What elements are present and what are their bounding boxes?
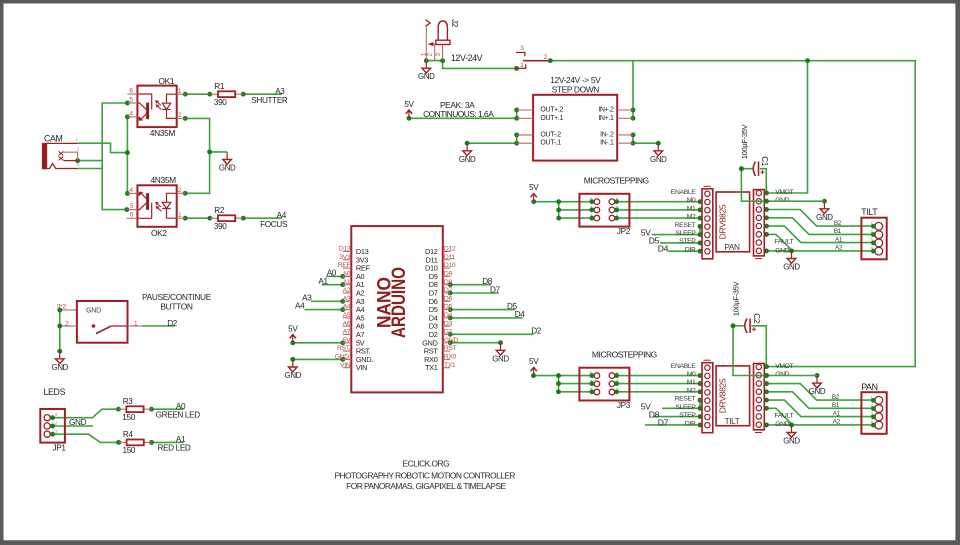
- junction nano left: [340, 282, 345, 287]
- junction JP1: [149, 407, 154, 412]
- junction driver1 left: [698, 249, 703, 254]
- svg-text:A1: A1: [343, 279, 351, 286]
- junction driver1 right: [739, 166, 744, 171]
- supply 5V output: [404, 100, 414, 119]
- svg-text:GND: GND: [492, 354, 509, 363]
- svg-text:STEP: STEP: [679, 238, 696, 245]
- junction nano right: [448, 282, 453, 287]
- junction driver2 right: [731, 323, 736, 328]
- svg-text:TILT: TILT: [861, 207, 878, 217]
- pin header control side of driver 1: [702, 186, 713, 258]
- svg-text:CONTINUOUS: 1.6A: CONTINUOUS: 1.6A: [423, 109, 494, 119]
- junction TILT pins: [871, 232, 876, 237]
- wire driver2 B2 to PAN: [767, 384, 874, 401]
- svg-text:OUT-.1: OUT-.1: [540, 140, 561, 147]
- junction nano right: [448, 332, 453, 337]
- junction driver1 right: [764, 232, 769, 237]
- svg-text:STEP: STEP: [679, 412, 696, 419]
- junction PAN pins: [871, 423, 876, 428]
- junction driver2 GND pin: [764, 373, 769, 378]
- svg-text:D10: D10: [444, 262, 456, 269]
- junction driver1 left: [698, 224, 703, 229]
- junction step-down: [631, 132, 636, 137]
- wire JP3 to M0: [617, 375, 700, 377]
- junction driver1 right: [764, 215, 769, 220]
- svg-text:2: 2: [544, 54, 548, 61]
- pushbutton S1 PAUSE/CONTINUE: [57, 301, 142, 343]
- wire JP3 to M2: [617, 391, 700, 393]
- junction button: [57, 349, 62, 354]
- junction driver2 left: [556, 373, 561, 378]
- svg-text:GND: GND: [418, 72, 435, 81]
- wire JP3 pin4: [559, 383, 592, 385]
- wire 5V to JP3: [534, 375, 559, 377]
- svg-text:FAULT: FAULT: [774, 412, 793, 419]
- ground at driver1 GND pin: [816, 201, 833, 222]
- svg-text:GND.: GND.: [335, 354, 351, 361]
- ground at step-down input: [650, 143, 667, 164]
- svg-text:ECLICK.ORG: ECLICK.ORG: [402, 459, 449, 469]
- wire IN- pins tie: [632, 135, 634, 143]
- junction driver2 left: [698, 406, 703, 411]
- junction driver1 left: [556, 207, 561, 212]
- svg-text:4N35M: 4N35M: [150, 128, 176, 138]
- svg-text:C1: C1: [760, 156, 769, 167]
- junction JP2 pins: [589, 207, 594, 212]
- junction: [207, 92, 212, 97]
- junction driver1 GND pin: [764, 199, 769, 204]
- junction nano right: [448, 340, 453, 345]
- svg-text:GND: GND: [775, 421, 789, 428]
- resistor R2: [210, 206, 243, 231]
- junction step-down: [514, 108, 519, 113]
- svg-text:R4: R4: [123, 430, 134, 439]
- svg-text:A1: A1: [835, 236, 843, 243]
- wire OK1 pin1 to R1: [185, 93, 210, 95]
- junction: [183, 216, 188, 221]
- junction JP2 pins: [589, 216, 594, 221]
- junction C2: [731, 323, 736, 328]
- wire GND branch of V3: [210, 151, 228, 153]
- junction: [207, 216, 212, 221]
- wire JP2 pin6: [559, 201, 592, 203]
- junction: [183, 191, 188, 196]
- junction step-down: [514, 116, 519, 121]
- junction: [75, 158, 80, 163]
- junction: [125, 101, 130, 106]
- junction driver1 left: [698, 207, 703, 212]
- junction driver2 left: [698, 381, 703, 386]
- wire JP3 pin2: [559, 391, 592, 393]
- module U1 ARDUINO NANO: [335, 226, 459, 392]
- ground at nano right: [492, 343, 509, 364]
- svg-text:A2: A2: [833, 419, 841, 426]
- junction driver2 right: [764, 381, 769, 386]
- svg-text:OUT-.2: OUT-.2: [540, 131, 561, 138]
- wire net A1 at nano: [322, 284, 343, 286]
- svg-text:GND: GND: [52, 363, 69, 372]
- svg-text:RX0: RX0: [444, 354, 457, 361]
- junction C1: [739, 166, 744, 171]
- svg-text:M1: M1: [687, 379, 696, 386]
- wire R3 to A0 label: [152, 408, 184, 410]
- junction TILT pins: [871, 249, 876, 254]
- junction JP2 pins: [614, 207, 619, 212]
- svg-text:D5: D5: [444, 304, 453, 311]
- capacitor C1 100uF-35V: [740, 123, 769, 176]
- svg-text:VIN: VIN: [356, 363, 367, 372]
- svg-text:GND: GND: [459, 155, 476, 164]
- junction JP3 pins: [589, 389, 594, 394]
- svg-text:R3: R3: [123, 397, 134, 406]
- wire C2 minus to GND rail: [733, 326, 817, 376]
- svg-text:5V: 5V: [288, 324, 298, 333]
- optocoupler OK1: [127, 76, 185, 138]
- svg-text:DIR: DIR: [685, 246, 696, 253]
- wire OK1 pin2 to OK2 pin2 (V3): [185, 118, 210, 193]
- wire C1 plus lead left: [741, 168, 752, 170]
- wire JP2 to M1: [617, 209, 700, 211]
- junction step-down: [407, 116, 412, 121]
- junction step-down: [631, 108, 636, 113]
- wire 12V-24V rail to driver1 VMOT: [767, 61, 808, 193]
- junction button: [57, 308, 62, 313]
- svg-text:100µF-35V: 100µF-35V: [732, 280, 741, 316]
- junction driver1 right: [764, 199, 769, 204]
- junction nano left: [340, 307, 345, 312]
- connector J2 power jack 12V-24V: [420, 19, 459, 61]
- junction driver1 right: [764, 207, 769, 212]
- svg-text:ENABLE: ENABLE: [671, 189, 697, 196]
- junction nano right: [498, 340, 503, 345]
- junction step-down: [514, 132, 519, 137]
- svg-text:SLEEP: SLEEP: [675, 404, 696, 411]
- svg-text:A4: A4: [277, 211, 287, 220]
- junction step-down: [656, 141, 661, 146]
- svg-text:IN+.2: IN+.2: [598, 107, 614, 114]
- junction JP3 pins: [614, 381, 619, 386]
- svg-text:RED LED: RED LED: [157, 444, 190, 453]
- svg-text:A5: A5: [343, 312, 351, 319]
- svg-text:GND: GND: [775, 247, 789, 254]
- wire driver2 GND bottom: [767, 424, 792, 426]
- junction power: [440, 58, 445, 63]
- wire RESET-SLEEP tie: [699, 226, 701, 234]
- wire CAM sleeve to V1: [78, 168, 103, 170]
- svg-text:A3: A3: [343, 295, 351, 302]
- capacitor C2 100uF-35V: [732, 280, 761, 333]
- svg-text:GND: GND: [783, 263, 800, 272]
- wire nano GND right: [450, 342, 500, 344]
- junction: [241, 92, 246, 97]
- wire 5V to JP2: [534, 201, 559, 203]
- svg-text:JP3: JP3: [617, 401, 631, 410]
- ground below button: [52, 351, 69, 372]
- junction PAN pins: [871, 406, 876, 411]
- wire driver1 B2 to TILT: [767, 210, 874, 227]
- svg-text:3*2: 3*2: [57, 304, 67, 311]
- junction TILT pins: [871, 224, 876, 229]
- wire JP2 to M2: [617, 217, 700, 219]
- ground at nano left: [285, 359, 302, 380]
- wire JP2 pin4: [559, 209, 592, 211]
- svg-text:JP1: JP1: [53, 444, 67, 453]
- junction step-down: [631, 141, 636, 146]
- wire D7 to DIR: [645, 424, 700, 426]
- svg-text:5V: 5V: [529, 183, 539, 192]
- svg-text:DIR: DIR: [685, 420, 696, 427]
- wire JP1 pin3 to R3: [53, 409, 119, 418]
- svg-text:JP2: JP2: [617, 227, 631, 236]
- svg-text:TX1: TX1: [425, 363, 438, 372]
- junction driver2 right: [764, 406, 769, 411]
- wire JP2 rows tie: [558, 202, 560, 218]
- wire JP2 pin2: [559, 217, 592, 219]
- svg-text:ENABLE: ENABLE: [671, 363, 697, 370]
- svg-text:GND: GND: [69, 418, 87, 427]
- junction driver2 left: [531, 373, 536, 378]
- wire 5V to nano: [293, 342, 343, 344]
- junction: [124, 207, 129, 212]
- svg-text:R1: R1: [214, 82, 225, 91]
- junction power: [548, 58, 553, 63]
- wire D5 to STEP: [660, 242, 700, 244]
- wire GND to nano: [293, 358, 343, 360]
- svg-text:C2: C2: [752, 313, 761, 324]
- svg-text:B1: B1: [834, 228, 842, 235]
- junction driver2 right: [815, 373, 820, 378]
- junction PAN pins: [871, 398, 876, 403]
- wire C1 to VMOT: [760, 169, 766, 193]
- wire net A0 at nano: [326, 275, 343, 277]
- junction driver1 left: [698, 232, 703, 237]
- svg-text:D4: D4: [444, 312, 453, 319]
- svg-text:5V: 5V: [529, 357, 539, 366]
- svg-text:RST.: RST.: [337, 345, 351, 352]
- svg-text:D7: D7: [490, 285, 501, 294]
- junction nano left: [290, 357, 295, 362]
- svg-text:M0: M0: [687, 371, 696, 378]
- junction: [207, 149, 212, 154]
- junction driver2 left: [556, 389, 561, 394]
- svg-text:3V3: 3V3: [339, 254, 351, 261]
- svg-text:150: 150: [122, 413, 135, 422]
- svg-text:M0: M0: [687, 197, 696, 204]
- svg-text:REF: REF: [338, 262, 351, 269]
- junction driver2 right: [764, 389, 769, 394]
- svg-text:OK2: OK2: [151, 228, 167, 238]
- wire C2 plus lead left: [733, 325, 744, 327]
- wire R2 to A4 label: [243, 217, 282, 219]
- svg-text:OUT+.2: OUT+.2: [540, 107, 563, 114]
- junction JP3 pins: [614, 389, 619, 394]
- supply 5V at JP3: [529, 357, 539, 376]
- svg-text:A2: A2: [343, 287, 351, 294]
- svg-text:DRV8825: DRV8825: [718, 378, 728, 413]
- svg-text:IN+.1: IN+.1: [598, 115, 614, 122]
- wire net D8 at nano: [450, 284, 491, 286]
- ground at driver2 GND pin: [809, 376, 826, 397]
- junction driver1 left: [556, 199, 561, 204]
- svg-text:100µF-35V: 100µF-35V: [740, 123, 749, 159]
- svg-text:GND: GND: [783, 437, 800, 446]
- junction driver1 left: [698, 199, 703, 204]
- svg-text:M2: M2: [687, 214, 696, 221]
- junction JP1: [149, 440, 154, 445]
- junction: [183, 92, 188, 97]
- junction nano right: [448, 307, 453, 312]
- svg-text:D8: D8: [444, 279, 453, 286]
- junction: [125, 150, 130, 155]
- svg-text:VMOT: VMOT: [775, 363, 793, 370]
- wire JP1 pin1 to R4: [53, 434, 119, 442]
- wire RESET-SLEEP tie 2: [699, 400, 701, 408]
- wire OUT- to GND: [467, 142, 517, 144]
- junction step-down: [631, 116, 636, 121]
- svg-text:A1: A1: [318, 277, 328, 286]
- svg-text:5V: 5V: [343, 337, 351, 344]
- wire button pins to GND: [59, 310, 61, 351]
- connector TILT: [861, 207, 887, 259]
- junction driver1 left: [698, 240, 703, 245]
- svg-text:SLEEP: SLEEP: [675, 230, 696, 237]
- svg-text:FAULT: FAULT: [774, 238, 793, 245]
- svg-text:A3: A3: [275, 87, 285, 96]
- driver module U2 DRV8825: [716, 366, 750, 426]
- wire net D4 at nano: [450, 317, 522, 319]
- svg-text:12V-24V: 12V-24V: [451, 53, 483, 63]
- svg-text:1: 1: [134, 320, 138, 327]
- junction driver2 left: [556, 381, 561, 386]
- svg-text:A0: A0: [343, 271, 351, 278]
- svg-text:D2: D2: [444, 329, 453, 336]
- optocoupler OK2: [126, 175, 185, 238]
- junction button: [57, 324, 62, 329]
- wire CAM tip to net V2: [78, 143, 128, 152]
- junction driver2 right: [764, 364, 769, 369]
- module step-down 12V-24V to 5V: [517, 95, 633, 161]
- wire J2 to switch pin1: [443, 61, 517, 69]
- svg-text:LEDS: LEDS: [44, 387, 66, 397]
- svg-text:PAN: PAN: [724, 243, 740, 252]
- ground at step-down output: [459, 143, 476, 164]
- svg-text:D7: D7: [658, 417, 669, 427]
- junction driver2 left: [698, 398, 703, 403]
- ground near OK1/OK2: [219, 152, 236, 173]
- svg-text:R2: R2: [214, 206, 225, 215]
- svg-text:D13: D13: [339, 246, 351, 253]
- wire OK2 pin1 to R2: [185, 217, 210, 219]
- svg-text:GND: GND: [816, 213, 833, 222]
- svg-text:A2: A2: [835, 245, 843, 252]
- junction JP3 pins: [589, 381, 594, 386]
- resistor R4: [119, 430, 152, 455]
- pin header output side of driver 2: [754, 364, 765, 433]
- svg-text:A4: A4: [343, 304, 351, 311]
- svg-text:390: 390: [214, 98, 227, 107]
- svg-text:GND: GND: [775, 371, 789, 378]
- svg-text:IN-.2: IN-.2: [600, 131, 614, 138]
- svg-text:390: 390: [214, 222, 227, 231]
- wire net A3 at nano: [311, 300, 343, 302]
- pin header output side of driver 1: [754, 190, 765, 259]
- junction driver2 left: [698, 389, 703, 394]
- svg-text:PAN: PAN: [861, 382, 877, 392]
- junction driver2 left: [698, 373, 703, 378]
- junction driver1 left: [556, 216, 561, 221]
- svg-text:FOR PANORAMAS, GIGAPIXEL & TIM: FOR PANORAMAS, GIGAPIXEL & TIMELAPSE: [346, 481, 506, 491]
- svg-text:D12: D12: [444, 246, 456, 253]
- driver module U1 DRV8825: [716, 192, 750, 252]
- svg-text:150: 150: [123, 446, 136, 455]
- svg-text:M2: M2: [687, 388, 696, 395]
- junction JP2 pins: [614, 199, 619, 204]
- svg-text:OK1: OK1: [159, 76, 175, 86]
- wire net D2 at nano: [450, 333, 533, 335]
- svg-text:1: 1: [520, 62, 524, 69]
- resistor R3: [118, 397, 151, 422]
- svg-text:D3: D3: [444, 320, 453, 327]
- junction driver2 right: [764, 373, 769, 378]
- svg-text:DRV8825: DRV8825: [718, 204, 728, 239]
- svg-text:GND: GND: [285, 371, 302, 380]
- svg-text:IN-.1: IN-.1: [600, 140, 614, 147]
- wire JP3 pin6: [559, 375, 592, 377]
- wire JP3 to M1: [617, 383, 700, 385]
- svg-text:D4: D4: [658, 243, 669, 253]
- junction driver2 left: [698, 422, 703, 427]
- junction nano left: [340, 357, 345, 362]
- resistor R1: [210, 82, 243, 107]
- svg-text:3: 3: [520, 45, 524, 52]
- junction power: [514, 66, 519, 71]
- connector CAM (audio jack): [42, 133, 79, 169]
- junction nano left: [290, 340, 295, 345]
- wire D4 to DIR: [668, 250, 700, 252]
- svg-text:B1: B1: [832, 402, 840, 409]
- junction JP1 pins: [50, 432, 55, 437]
- junction driver2 right: [789, 422, 794, 427]
- svg-text:D11: D11: [444, 254, 455, 261]
- wire OUT- pins tie: [516, 135, 518, 143]
- svg-text:4N35M: 4N35M: [151, 175, 177, 185]
- wire R4 to A1 label: [152, 441, 184, 443]
- junction TILT pins: [871, 240, 876, 245]
- svg-text:B2: B2: [834, 220, 842, 227]
- wire driver2 A1 to PAN: [767, 400, 874, 417]
- wire IN- to GND: [633, 142, 658, 144]
- wire 12V-24V rail to driver2 VMOT: [550, 61, 915, 367]
- ground at driver1 bottom: [783, 251, 800, 272]
- ground below J2: [418, 61, 435, 82]
- switch S2: [516, 45, 549, 69]
- wire JP2 to M0: [617, 201, 700, 203]
- svg-text:CAM: CAM: [44, 133, 63, 143]
- supply 5V at nano: [288, 324, 298, 343]
- svg-text:D2: D2: [167, 319, 178, 328]
- junction driver1 right: [764, 248, 769, 253]
- svg-text:ARDUINO: ARDUINO: [389, 267, 410, 338]
- wire IN+ pins tie: [632, 110, 634, 118]
- svg-text:TX1: TX1: [444, 362, 456, 369]
- connector PAN: [861, 382, 887, 434]
- wire driver1 A2 to TILT: [767, 234, 874, 251]
- svg-text:RESET: RESET: [675, 396, 696, 403]
- junction driver1 right: [764, 224, 769, 229]
- wire 5V to SLEEP 2: [662, 407, 700, 409]
- svg-text:D7: D7: [444, 287, 453, 294]
- wire driver2 A2 to PAN: [767, 408, 874, 425]
